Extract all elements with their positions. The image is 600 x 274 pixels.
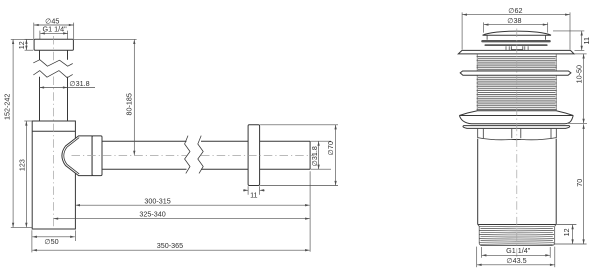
svg-text:G1 1/4": G1 1/4" [43, 25, 68, 34]
svg-text:11: 11 [582, 37, 591, 44]
svg-text:∅70: ∅70 [326, 141, 335, 155]
svg-text:300-315: 300-315 [144, 196, 170, 205]
svg-text:G1 1/4": G1 1/4" [506, 246, 531, 255]
svg-text:12: 12 [17, 41, 26, 49]
svg-text:123: 123 [18, 159, 27, 171]
svg-text:10-50: 10-50 [575, 65, 584, 83]
svg-text:80-185: 80-185 [124, 93, 133, 115]
svg-text:∅43.5: ∅43.5 [506, 256, 526, 265]
svg-text:325-340: 325-340 [139, 210, 165, 219]
svg-text:∅38: ∅38 [507, 16, 521, 25]
svg-text:∅62: ∅62 [508, 6, 522, 15]
svg-text:11: 11 [250, 191, 257, 200]
svg-text:∅31.8: ∅31.8 [69, 79, 89, 88]
svg-text:∅50: ∅50 [44, 237, 58, 246]
svg-text:12: 12 [562, 228, 571, 236]
svg-text:152-242: 152-242 [3, 94, 12, 120]
svg-text:70: 70 [575, 179, 584, 187]
svg-text:350-365: 350-365 [157, 241, 183, 250]
svg-text:∅31.8: ∅31.8 [310, 146, 319, 166]
